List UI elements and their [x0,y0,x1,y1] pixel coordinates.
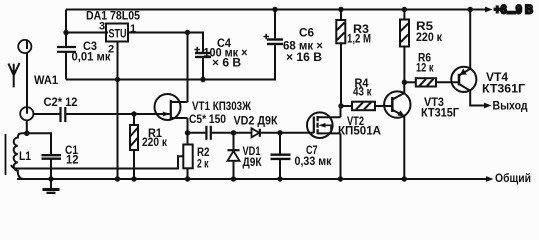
svg-text:+6...9 В: +6...9 В [494,2,533,16]
inductor L1 [14,133,27,179]
resistor R5 [402,7,407,12]
capacitor C5 [188,132,206,134]
transistor VT2 (MOSFET КП501А) [307,112,333,138]
junction: VT3 emitter on rail [402,176,407,181]
ground [50,179,52,188]
resistor R6 [404,81,415,83]
resistor R3 [340,10,342,21]
junction: R2 on rail [185,176,190,181]
svg-text:КП501А: КП501А [338,124,381,138]
junction: R1 on rail [131,176,136,181]
capacitor C1 [42,154,62,156]
svg-text:12 к: 12 к [416,61,434,75]
svg-text:1,2 М: 1,2 М [347,32,371,46]
transistor VT4 (КТ361Г PNP) [451,67,476,92]
svg-text:12: 12 [66,153,79,167]
node: common arrow Общий [486,176,494,182]
wire: VD2 to VT2 gate [261,132,314,134]
junction: DA1 pin2 gnd on rail [115,176,120,181]
wire: VT1 drain vertical [187,33,189,103]
wire: node to C1 [27,133,51,155]
svg-text:0,33 мк: 0,33 мк [295,154,333,168]
junction: R5/R6/VT3 collector [402,80,407,85]
svg-text:VT1 КП303Ж: VT1 КП303Ж [192,99,251,113]
wire: supply drop to DA1 pin3 and C3 (x=66) [65,10,67,48]
wire: C5 to VD2 [212,132,252,134]
svg-text:× 6 В: × 6 В [212,56,241,70]
wire: C2 to VT1 gate [66,113,169,115]
svg-text:C5* 150: C5* 150 [189,112,226,126]
capacitor C7 [279,133,281,155]
VT1 gate arrow [163,112,171,117]
junction: C7 on rail [277,176,282,181]
wire: jack to C2 [33,113,59,115]
junction: VD1 branch [231,130,236,135]
junction: C7 branch [277,130,282,135]
antenna WA1 [8,63,19,87]
capacitor C3 [57,46,76,48]
svg-text:STU: STU [109,27,127,41]
wire: to DA1 pin 3 [66,32,108,34]
junction: C4 bottom on ground bus [200,77,205,82]
svg-text:L1: L1 [19,149,31,163]
svg-text:2 к: 2 к [197,157,209,171]
junction: pin3 branch on x=66 [63,30,68,35]
resistor R2 (trimmer) [187,133,189,145]
svg-text:220 к: 220 к [142,135,168,149]
junction: DA1 pin2 on ground bus [115,77,120,82]
svg-text:C2* 12: C2* 12 [44,95,78,109]
wire: DA1 pin2 drop to bottom rail [117,42,119,179]
wire: DA1 pin1 output (5V) to C4 [128,33,203,54]
transistor VT1 (JFET КП303Ж) [155,94,181,120]
junction: R3/R4/VT2 drain [338,103,343,108]
junction: VD1 on rail [231,176,236,181]
resistor R4 [341,105,352,107]
wire: +6...9V top supply rail [66,9,487,11]
svg-text:КТ315Г: КТ315Г [421,106,459,120]
node: antenna plug/socket pair [26,40,28,49]
wire: L1 tap to R2 wiper [11,156,183,168]
resistor R1 [131,111,136,116]
svg-text:3: 3 [99,21,105,33]
capacitor C4 (electrolytic) [195,52,211,54]
svg-text:220 к: 220 к [416,30,443,44]
junction: VT2 source on rail [338,176,343,181]
wire: bottom ground rail [17,178,487,180]
L1 core line [5,134,7,175]
svg-text:× 16 В: × 16 В [286,50,322,64]
svg-text:2: 2 [108,44,114,56]
svg-text:Выход: Выход [493,99,528,113]
svg-text:Общий: Общий [495,171,531,185]
svg-text:VD2 Д9К: VD2 Д9К [234,114,279,128]
diode VD1 Д9К [233,133,235,150]
capacitor C2 [59,107,61,122]
junction: C1 on rail [48,176,53,181]
svg-text:C6: C6 [299,26,314,40]
svg-text:DA1 78L05: DA1 78L05 [86,9,140,23]
svg-text:0,01 мк: 0,01 мк [72,50,112,64]
transistor VT3 (КТ315Г NPN) [384,91,410,117]
capacitor C6 (electrolytic) [267,38,283,40]
node: supply arrow +6...9 В [485,7,493,13]
junction: VT1 drain on pin1 wire [185,30,190,35]
svg-text:КТ361Г: КТ361Г [482,82,525,96]
diode VD2 Д9К [252,128,260,137]
junction: VT1 source / C5 / R2 [185,130,190,135]
svg-text:Д9К: Д9К [243,155,263,169]
svg-text:43 к: 43 к [353,85,372,99]
node: output arrow Выход [484,103,492,109]
svg-text:WA1: WA1 [34,73,58,87]
op-amp U1: voltage regulator DA1 78L05 box [106,24,128,42]
junction: tank node (L1/C1/jack) [24,131,29,136]
wire: ground bus y=79.5 from C3 to C6 [66,44,275,80]
junction: C6 top on supply rail [272,7,277,12]
